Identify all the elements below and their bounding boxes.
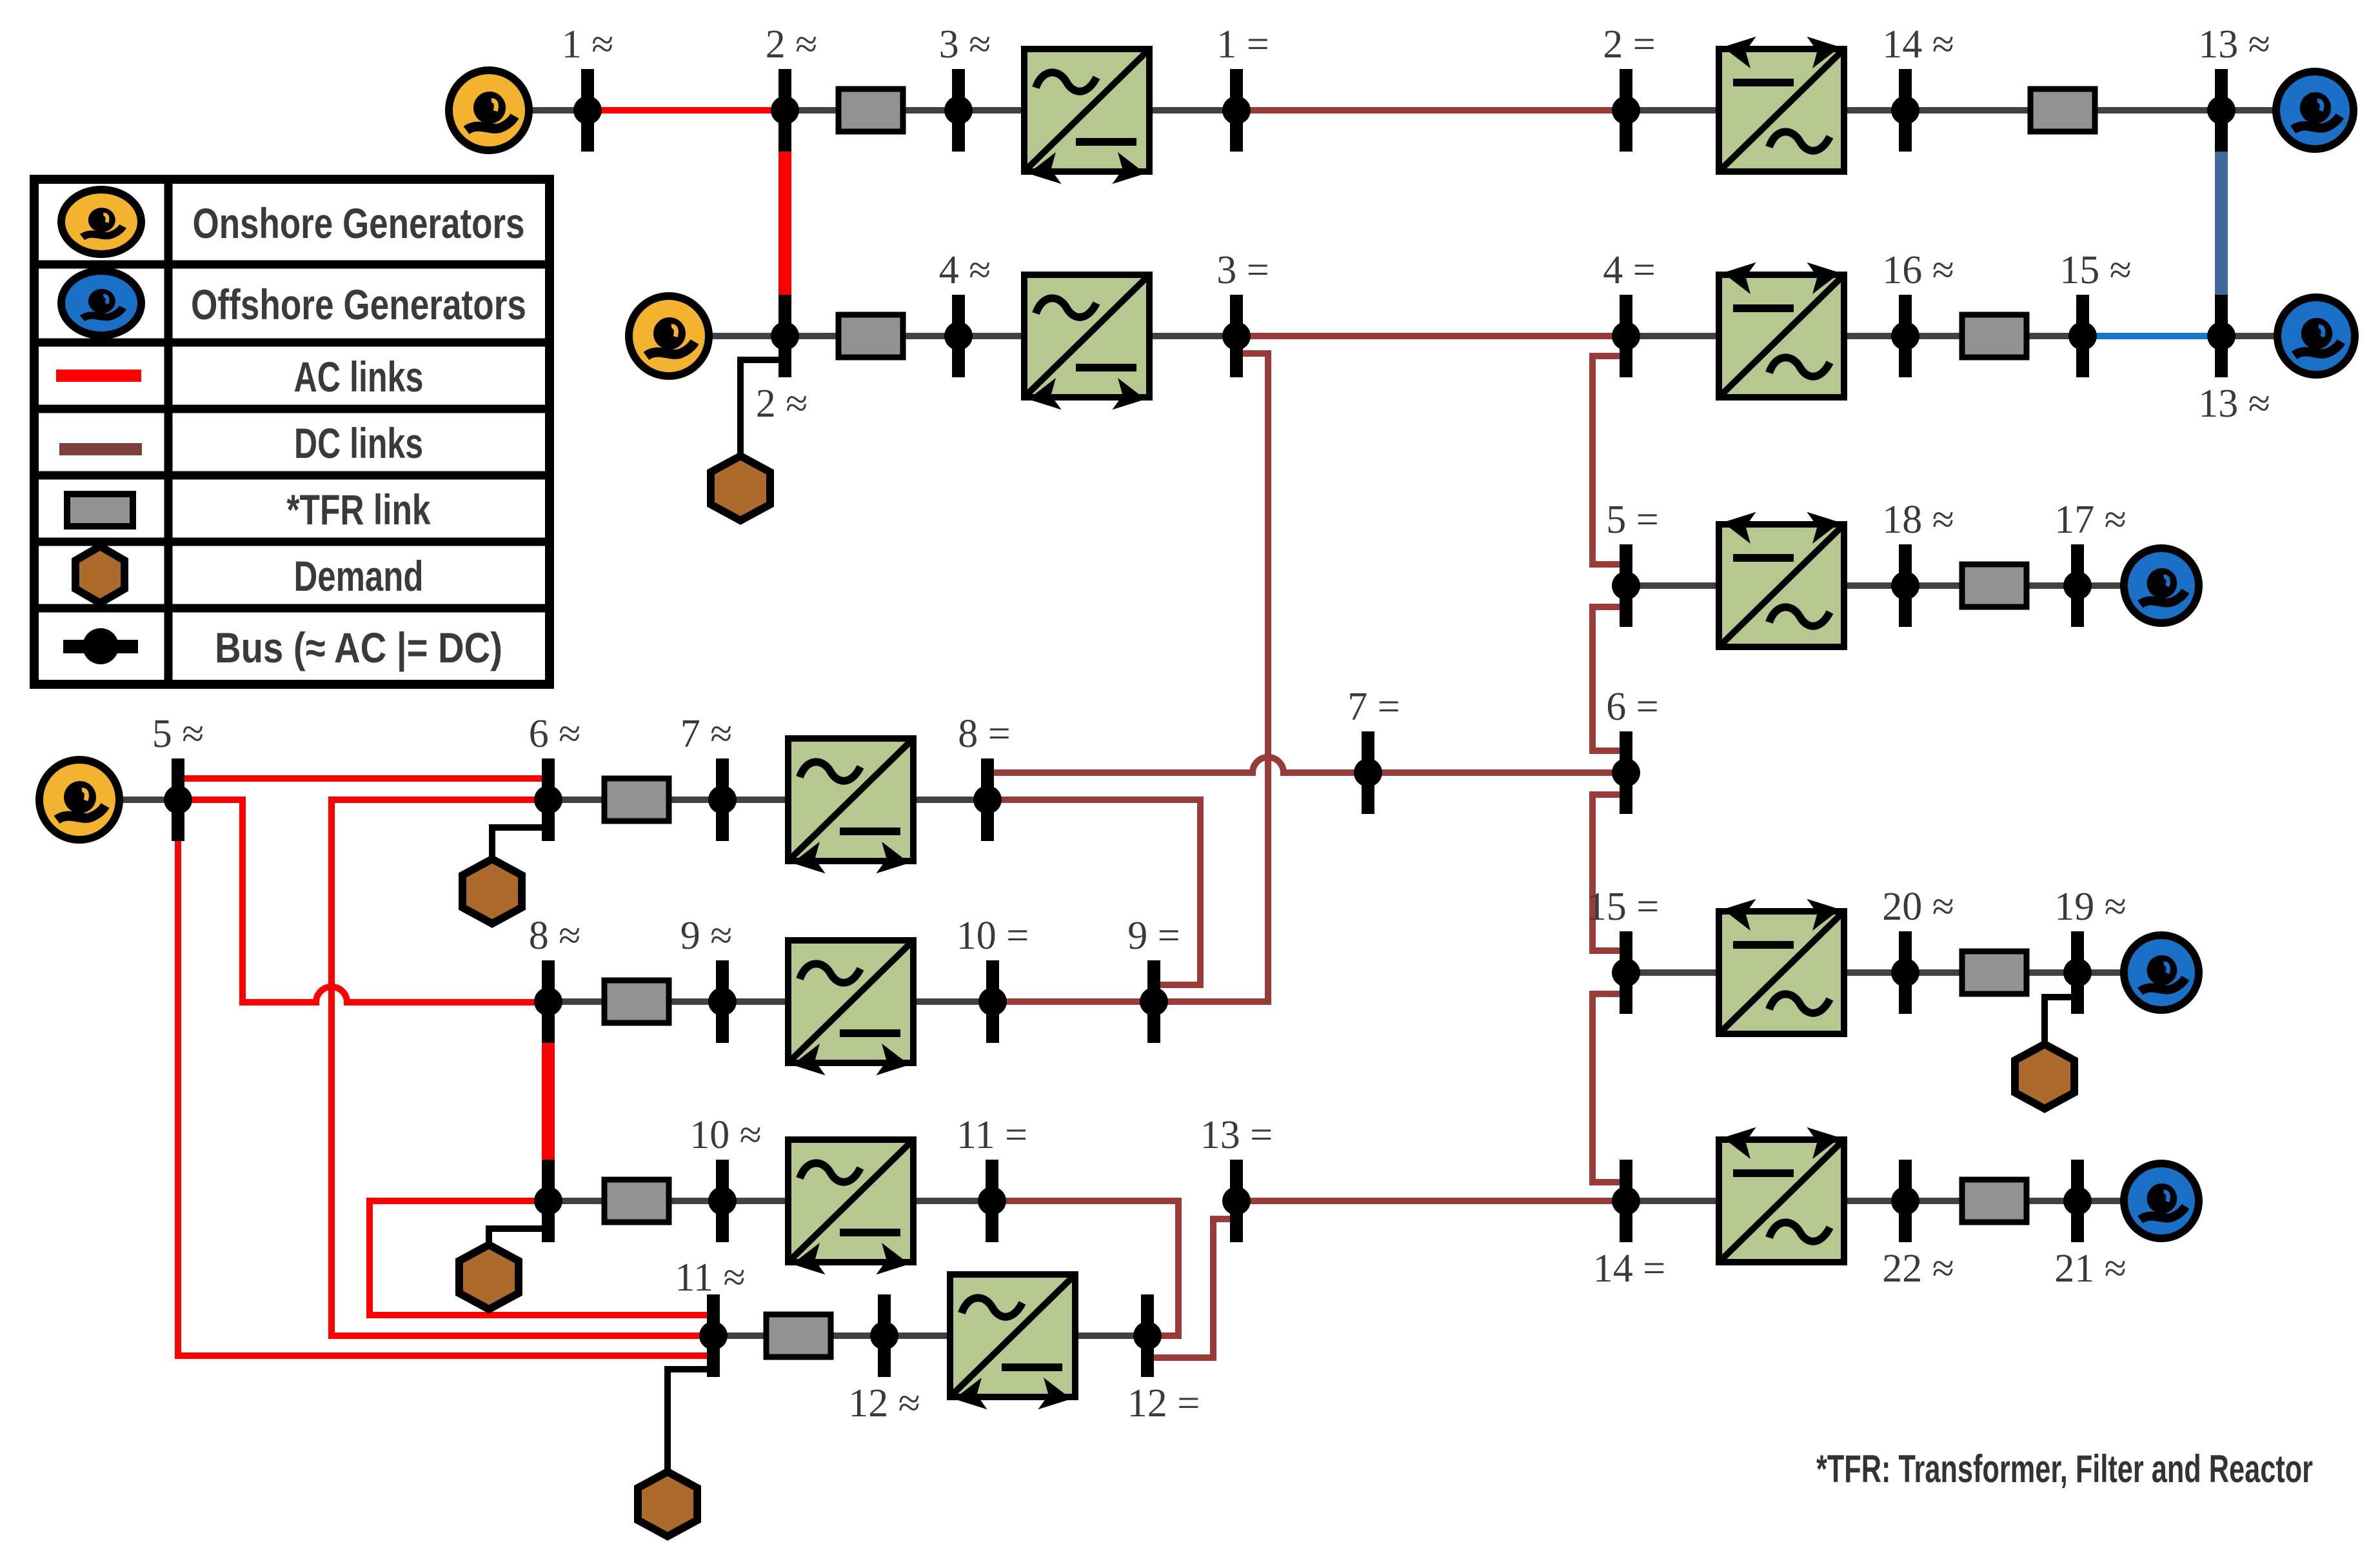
demand D5 bbox=[2015, 1044, 2074, 1109]
bus 3DC bbox=[1222, 295, 1251, 377]
wire bus 10AClow to converter U9 bbox=[722, 1198, 796, 1204]
svg-text:6 =: 6 = bbox=[1606, 685, 1658, 729]
wire bus 13AC lower to generator W2 bbox=[2221, 333, 2316, 339]
svg-text:7 ≈: 7 ≈ bbox=[680, 712, 733, 756]
bus 11DC bbox=[978, 1160, 1006, 1242]
AC link bus 5AClow - bus 11AC (left vertical) bbox=[178, 841, 713, 1356]
offshore generator W1 bbox=[2276, 72, 2354, 149]
TFR link T10 bbox=[1962, 1180, 2027, 1222]
AC link bus 6AClow - bus 11AC (long vertical) bbox=[332, 800, 713, 1336]
bus 16AC bbox=[1891, 295, 1919, 377]
DC link bus 13DC - bus 14DC bbox=[1236, 1198, 1620, 1204]
wire converter U11 to bus 12DC bbox=[1069, 1332, 1147, 1339]
AC link bus 13AC - bus 13AC lower (dark blue) bbox=[2215, 150, 2228, 297]
converter U10 (DC-AC) bbox=[1719, 1122, 1844, 1262]
AC link bus 5AClow - bus 6AClow (upper) bbox=[178, 775, 548, 782]
wire TFR T11 to bus 12AClow bbox=[828, 1332, 884, 1339]
converter U6 (AC-DC) bbox=[788, 738, 913, 879]
bus 13DC bbox=[1222, 1160, 1251, 1242]
wire bus 9AClow to converter U7 bbox=[722, 998, 796, 1005]
svg-text:12 ≈: 12 ≈ bbox=[848, 1382, 920, 1425]
bus 4AC bbox=[944, 295, 973, 377]
bus 6AClow bbox=[534, 758, 562, 841]
wire bus 4DC to converter U4 bbox=[1626, 333, 1729, 339]
bus 13AC bbox=[2207, 69, 2236, 152]
svg-text:5 =: 5 = bbox=[1606, 498, 1658, 542]
wire bus 12AClow to converter U11 bbox=[884, 1332, 956, 1339]
svg-text:15 =: 15 = bbox=[1587, 885, 1659, 929]
svg-text:Onshore Generators: Onshore Generators bbox=[193, 199, 525, 247]
wire converter U5 to bus 18AC bbox=[1834, 582, 1905, 589]
bus 1AC bbox=[573, 69, 602, 152]
wire generator G1 to bus 1AC bbox=[489, 107, 588, 114]
bus 3AC bbox=[944, 69, 973, 152]
wire converter U3 to bus 3DC bbox=[1142, 333, 1236, 339]
bus 7DC bbox=[1354, 731, 1382, 814]
legend icon demand bbox=[75, 546, 124, 603]
svg-text:1 =: 1 = bbox=[1216, 23, 1269, 66]
svg-text:2 ≈: 2 ≈ bbox=[766, 23, 818, 66]
wire bus 5DC to converter U5 bbox=[1626, 582, 1729, 589]
bus 8DC bbox=[973, 758, 1002, 841]
offshore generator W2 bbox=[2277, 297, 2355, 375]
wire TFR T10 to bus 21AC bbox=[2023, 1198, 2078, 1204]
bus 20AC bbox=[1891, 931, 1919, 1014]
converter U9 (AC-DC) bbox=[788, 1140, 913, 1280]
bus 21AC bbox=[2063, 1160, 2092, 1242]
svg-text:Bus (≈ AC |= DC): Bus (≈ AC |= DC) bbox=[215, 624, 502, 673]
wire TFR T7 to bus 9AClow bbox=[666, 998, 722, 1005]
legend icon TFR link bbox=[67, 494, 133, 526]
wire demand D4 to bus 11AC bbox=[668, 1369, 707, 1474]
wire converter U10 to bus 22AC bbox=[1834, 1198, 1905, 1204]
svg-text:11 =: 11 = bbox=[957, 1113, 1027, 1157]
demand D2 bbox=[462, 859, 522, 924]
wire bus 11AC to TFR T11 bbox=[713, 1332, 769, 1339]
svg-text:20 ≈: 20 ≈ bbox=[1882, 885, 1954, 929]
wire bus 18AC to TFR T5 bbox=[1905, 582, 1965, 589]
bus 13AC lower bbox=[2207, 295, 2236, 377]
AC link bus L8 - bus 11AC bbox=[370, 1201, 713, 1315]
wire bus 6AClow to TFR T6 bbox=[548, 797, 608, 803]
wire bus L8 to TFR T9 bbox=[548, 1198, 608, 1204]
TFR link T8 bbox=[1962, 951, 2027, 994]
svg-text:DC links: DC links bbox=[294, 419, 423, 467]
bus 22AC bbox=[1891, 1160, 1919, 1242]
wire bus 15DC to converter U8 bbox=[1626, 969, 1729, 976]
wire bus 22AC to TFR T10 bbox=[1905, 1198, 1965, 1204]
converter U7 (AC-DC) bbox=[788, 940, 913, 1081]
TFR link T2 bbox=[2030, 89, 2095, 132]
AC link bus 2AC - bus 2AC lower (red vertical) bbox=[778, 150, 791, 296]
svg-text:8 =: 8 = bbox=[958, 712, 1010, 756]
wire bus 20AC to TFR T8 bbox=[1905, 969, 1965, 976]
wire bus 21AC to generator W5 bbox=[2078, 1198, 2161, 1204]
svg-text:14 =: 14 = bbox=[1593, 1247, 1665, 1291]
bus 2AC bbox=[771, 69, 799, 152]
svg-text:Offshore Generators: Offshore Generators bbox=[191, 281, 526, 328]
svg-text:14 ≈: 14 ≈ bbox=[1882, 23, 1954, 66]
wire demand D2 to bus 6AClow bbox=[492, 827, 542, 861]
wire TFR T5 to bus 17AC bbox=[2023, 582, 2078, 589]
converter U4 (DC-AC) bbox=[1719, 257, 1844, 397]
svg-text:4 ≈: 4 ≈ bbox=[939, 248, 991, 292]
converter U5 (DC-AC) bbox=[1719, 506, 1844, 647]
svg-text:9 ≈: 9 ≈ bbox=[680, 914, 733, 958]
svg-text:2 ≈: 2 ≈ bbox=[756, 382, 808, 426]
DC link bus 4DC - bus 5DC bbox=[1592, 356, 1620, 564]
svg-text:*TFR: Transformer, Filter and: *TFR: Transformer, Filter and Reactor bbox=[1816, 1447, 2313, 1491]
wire demand D3 to bus L8 bbox=[489, 1229, 542, 1246]
offshore generator W4 bbox=[2124, 935, 2199, 1010]
bus 8AClow bbox=[534, 960, 562, 1043]
converter U8 (DC-AC) bbox=[1719, 893, 1844, 1034]
bus 6DC bbox=[1612, 731, 1640, 814]
demand D3 bbox=[459, 1245, 519, 1309]
wire converter U1 to bus 1DC bbox=[1142, 107, 1236, 114]
wire generator G3 to bus 5AClow bbox=[79, 797, 178, 803]
offshore generator W5 bbox=[2124, 1164, 2199, 1238]
bus 15DC bbox=[1612, 931, 1640, 1014]
bus 15AC bbox=[2068, 295, 2097, 377]
wire converter U8 to bus 20AC bbox=[1834, 969, 1905, 976]
wire TFR T8 to bus 19AC bbox=[2023, 969, 2078, 976]
wire TFR T3 to bus 4AC bbox=[900, 333, 958, 339]
bus 14DC bbox=[1612, 1160, 1640, 1242]
TFR link T9 bbox=[604, 1180, 669, 1222]
svg-text:13 ≈: 13 ≈ bbox=[2198, 23, 2270, 66]
wire TFR T1 to bus 3AC bbox=[900, 107, 958, 114]
legend icon bus bbox=[63, 628, 138, 664]
wire bus 14AC to TFR T2 bbox=[1905, 107, 2034, 114]
DC link bus 6DC - bus 15DC bbox=[1592, 795, 1620, 951]
AC link bus 15AC - bus 13AC lower (blue) bbox=[2083, 333, 2221, 339]
svg-text:6 ≈: 6 ≈ bbox=[529, 712, 581, 756]
bus 7AClow bbox=[708, 758, 737, 841]
TFR link T3 bbox=[838, 315, 903, 357]
DC link bus 11DC - bus 12DC bbox=[992, 1201, 1178, 1336]
svg-text:3 ≈: 3 ≈ bbox=[939, 23, 991, 66]
AC link bus 5AClow - bus 8AClow (with jump) bbox=[178, 800, 548, 1002]
svg-text:21 ≈: 21 ≈ bbox=[2054, 1247, 2127, 1291]
svg-text:8 ≈: 8 ≈ bbox=[529, 914, 581, 958]
wire bus 2DC to converter U2 bbox=[1626, 107, 1729, 114]
wire bus 17AC to generator W3 bbox=[2078, 582, 2161, 589]
bus 17AC bbox=[2063, 544, 2092, 627]
wire bus 2AC to TFR T1 bbox=[785, 107, 842, 114]
wire bus 2AC lower to TFR T3 bbox=[785, 333, 842, 339]
bus 10AClow bbox=[708, 1160, 737, 1242]
wire converter U9 to bus 11DC bbox=[906, 1198, 992, 1204]
wire bus 16AC to TFR T4 bbox=[1905, 333, 1965, 339]
wire bus 4AC to converter U3 bbox=[958, 333, 1032, 339]
legend box bbox=[34, 179, 550, 684]
wire bus 13AC to generator W1 bbox=[2221, 107, 2315, 114]
converter U11 (AC-DC) bbox=[950, 1274, 1075, 1415]
wire bus 7AClow to converter U6 bbox=[722, 797, 796, 803]
svg-text:1 ≈: 1 ≈ bbox=[562, 23, 614, 66]
svg-text:15 ≈: 15 ≈ bbox=[2059, 248, 2132, 292]
bus 14AC bbox=[1891, 69, 1919, 152]
svg-text:10 =: 10 = bbox=[957, 914, 1029, 958]
wire TFR T6 to bus 7AClow bbox=[666, 797, 722, 803]
svg-text:2 =: 2 = bbox=[1603, 23, 1655, 66]
DC link bus 15DC - bus 14DC bbox=[1592, 994, 1621, 1182]
svg-text:13 =: 13 = bbox=[1200, 1113, 1273, 1157]
wire TFR T2 to bus 13AC bbox=[2092, 107, 2221, 114]
bus L8 bbox=[534, 1160, 562, 1242]
converter U2 (DC-AC) bbox=[1719, 31, 1844, 172]
DC link bus 3DC - bus 4DC bbox=[1236, 333, 1626, 339]
TFR link T7 bbox=[604, 980, 669, 1023]
demand D4 bbox=[638, 1472, 697, 1536]
wire generator G2 to bus 2AC lower bbox=[669, 333, 785, 339]
wire bus 3AC to converter U1 bbox=[958, 107, 1032, 114]
DC link bus 10DC - bus 9DC bbox=[993, 998, 1154, 1005]
svg-text:AC links: AC links bbox=[294, 353, 424, 401]
AC link bus 1AC - bus 2AC bbox=[588, 107, 785, 114]
bus 5AClow bbox=[164, 758, 192, 841]
svg-text:11 ≈: 11 ≈ bbox=[675, 1256, 745, 1300]
svg-text:13 ≈: 13 ≈ bbox=[2198, 382, 2270, 426]
DC link bus 3DC - bus 9DC (vertical) bbox=[1154, 353, 1268, 1002]
AC link bus 8AClow - bus L8 (red vertical) bbox=[542, 1043, 555, 1160]
wire converter U6 to bus 8DC bbox=[906, 797, 987, 803]
demand D1 bbox=[711, 456, 770, 520]
wire demand D5 to bus 19AC bbox=[2045, 997, 2071, 1046]
svg-text:5 ≈: 5 ≈ bbox=[152, 712, 204, 756]
svg-text:17 ≈: 17 ≈ bbox=[2054, 498, 2127, 542]
DC link bus 8DC - bus 7DC - bus 6DC (with jump) bbox=[994, 757, 1626, 773]
bus 11AC bbox=[699, 1294, 728, 1377]
svg-text:3 =: 3 = bbox=[1216, 248, 1269, 292]
bus 4DC bbox=[1612, 295, 1640, 377]
svg-text:10 ≈: 10 ≈ bbox=[689, 1113, 762, 1157]
converter U1 (AC-DC) bbox=[1024, 49, 1149, 190]
bus 12AClow bbox=[870, 1294, 898, 1377]
onshore generator G1 bbox=[449, 70, 529, 150]
wire TFR T4 to bus 15AC bbox=[2023, 333, 2083, 339]
wire bus 19AC to generator W4 bbox=[2078, 969, 2161, 976]
TFR link T5 bbox=[1962, 564, 2027, 607]
bus 10DC bbox=[978, 960, 1007, 1043]
bus 2AC lower bbox=[771, 295, 799, 377]
wire bus 14DC to converter U10 bbox=[1626, 1198, 1729, 1204]
TFR link T6 bbox=[604, 778, 669, 821]
bus 1DC bbox=[1222, 69, 1251, 152]
wire converter U4 to bus 16AC bbox=[1834, 333, 1905, 339]
legend icon DC link bbox=[59, 443, 142, 455]
bus 5DC bbox=[1612, 544, 1640, 627]
svg-text:16 ≈: 16 ≈ bbox=[1882, 248, 1954, 292]
svg-text:19 ≈: 19 ≈ bbox=[2054, 885, 2127, 929]
TFR link T1 bbox=[838, 89, 903, 132]
svg-text:7 =: 7 = bbox=[1347, 685, 1400, 729]
bus 2DC bbox=[1612, 69, 1640, 152]
onshore generator G3 bbox=[39, 760, 119, 840]
DC link bus 5DC - bus 6DC bbox=[1592, 607, 1620, 751]
svg-text:9 =: 9 = bbox=[1127, 914, 1180, 958]
svg-text:4 =: 4 = bbox=[1603, 248, 1655, 292]
DC link bus 13DC - bus 12DC (outer) bbox=[1154, 1219, 1230, 1358]
DC link bus 1DC - bus 2DC bbox=[1236, 107, 1626, 114]
svg-text:18 ≈: 18 ≈ bbox=[1882, 498, 1954, 542]
legend icon offshore generator bbox=[61, 271, 141, 335]
bus 9DC bbox=[1140, 960, 1168, 1043]
DC link bus 8DC - bus 9DC (via corner) bbox=[987, 800, 1200, 985]
bus 12DC bbox=[1133, 1294, 1162, 1377]
wire converter U2 to bus 14AC bbox=[1834, 107, 1905, 114]
wire converter U7 to bus 10DC bbox=[906, 998, 993, 1005]
wire bus 8AClow to TFR T7 bbox=[548, 998, 608, 1005]
svg-text:*TFR link: *TFR link bbox=[287, 486, 431, 533]
wire demand D1 to bus 2AC lower bbox=[740, 360, 778, 458]
offshore generator W3 bbox=[2124, 548, 2199, 623]
converter U3 (AC-DC) bbox=[1024, 275, 1149, 415]
TFR link T11 bbox=[766, 1314, 831, 1357]
legend icon AC link bbox=[56, 370, 141, 382]
bus 9AClow bbox=[708, 960, 737, 1043]
wire TFR T9 to bus 10AClow bbox=[666, 1198, 722, 1204]
bus 18AC bbox=[1891, 544, 1919, 627]
svg-text:Demand: Demand bbox=[294, 552, 424, 600]
bus 19AC bbox=[2063, 931, 2092, 1014]
TFR link T4 bbox=[1962, 315, 2027, 357]
legend icon onshore generator bbox=[61, 190, 141, 254]
svg-text:22 ≈: 22 ≈ bbox=[1882, 1247, 1954, 1291]
svg-text:12 =: 12 = bbox=[1127, 1382, 1200, 1425]
onshore generator G2 bbox=[629, 296, 709, 376]
